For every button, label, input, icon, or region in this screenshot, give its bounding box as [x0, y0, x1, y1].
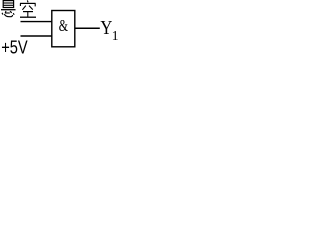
node label 悬空 (floating input) : char 悬 [1, 1, 16, 17]
node label 悬空 : char 空 [20, 0, 36, 17]
svg-text:1: 1 [112, 28, 119, 43]
svg-text:&: & [59, 16, 68, 35]
svg-text:Y: Y [100, 17, 112, 39]
wire: gate output [75, 27, 100, 29]
AND gate U1 (IEC rectangle) [52, 11, 75, 47]
wire: +5V input to gate [21, 35, 53, 37]
wire: floating input to gate [21, 21, 53, 23]
svg-text:+5V: +5V [1, 38, 28, 58]
